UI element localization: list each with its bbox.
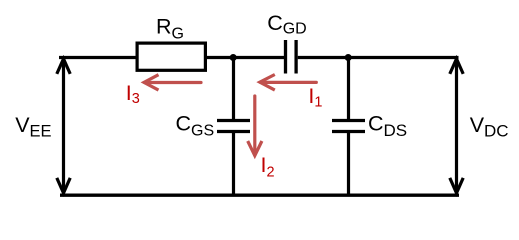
current arrow I1 shaft [261,81,317,84]
current arrow I1 head [260,75,275,91]
wire gate branch upper [232,58,235,120]
current arrow I2 shaft [253,96,256,155]
wire top left segment [59,56,139,59]
wire drain branch lower [347,133,350,196]
wire top right segment [298,56,459,59]
capacitor CDS top plate [332,119,365,122]
capacitor CGS bottom plate [217,130,250,133]
wire bottom [60,193,459,196]
voltage arrow VDC bottom head [450,178,463,193]
wire drain branch upper [347,58,350,120]
node gate junction dot [230,54,237,61]
voltage arrow VEE bottom head [57,178,70,193]
svg-text:I1: I1 [308,84,322,111]
current arrow I2 head [248,141,262,156]
capacitor CDS bottom plate [332,130,365,133]
voltage arrow VDC top head [450,59,463,74]
voltage arrow VEE shaft [62,60,65,192]
capacitor CGD left plate [284,40,287,74]
svg-text:CDS: CDS [368,111,407,140]
svg-text:I2: I2 [261,153,275,181]
resistor RG [137,43,205,70]
wire top middle segment [205,56,284,59]
svg-text:I3: I3 [126,81,140,107]
svg-text:VDC: VDC [470,113,509,141]
current arrow I3 head [144,75,159,90]
svg-text:CGS: CGS [176,111,215,139]
capacitor CGD right plate [294,40,297,74]
wire gate branch lower [232,133,235,196]
capacitor CGS top plate [217,119,250,122]
svg-text:CGD: CGD [267,11,307,38]
current arrow I3 shaft [145,81,202,84]
voltage arrow VEE top head [57,59,70,74]
voltage arrow VDC shaft [455,60,458,192]
svg-text:RG: RG [156,14,184,42]
node drain junction dot [345,54,352,61]
svg-text:VEE: VEE [15,113,51,141]
